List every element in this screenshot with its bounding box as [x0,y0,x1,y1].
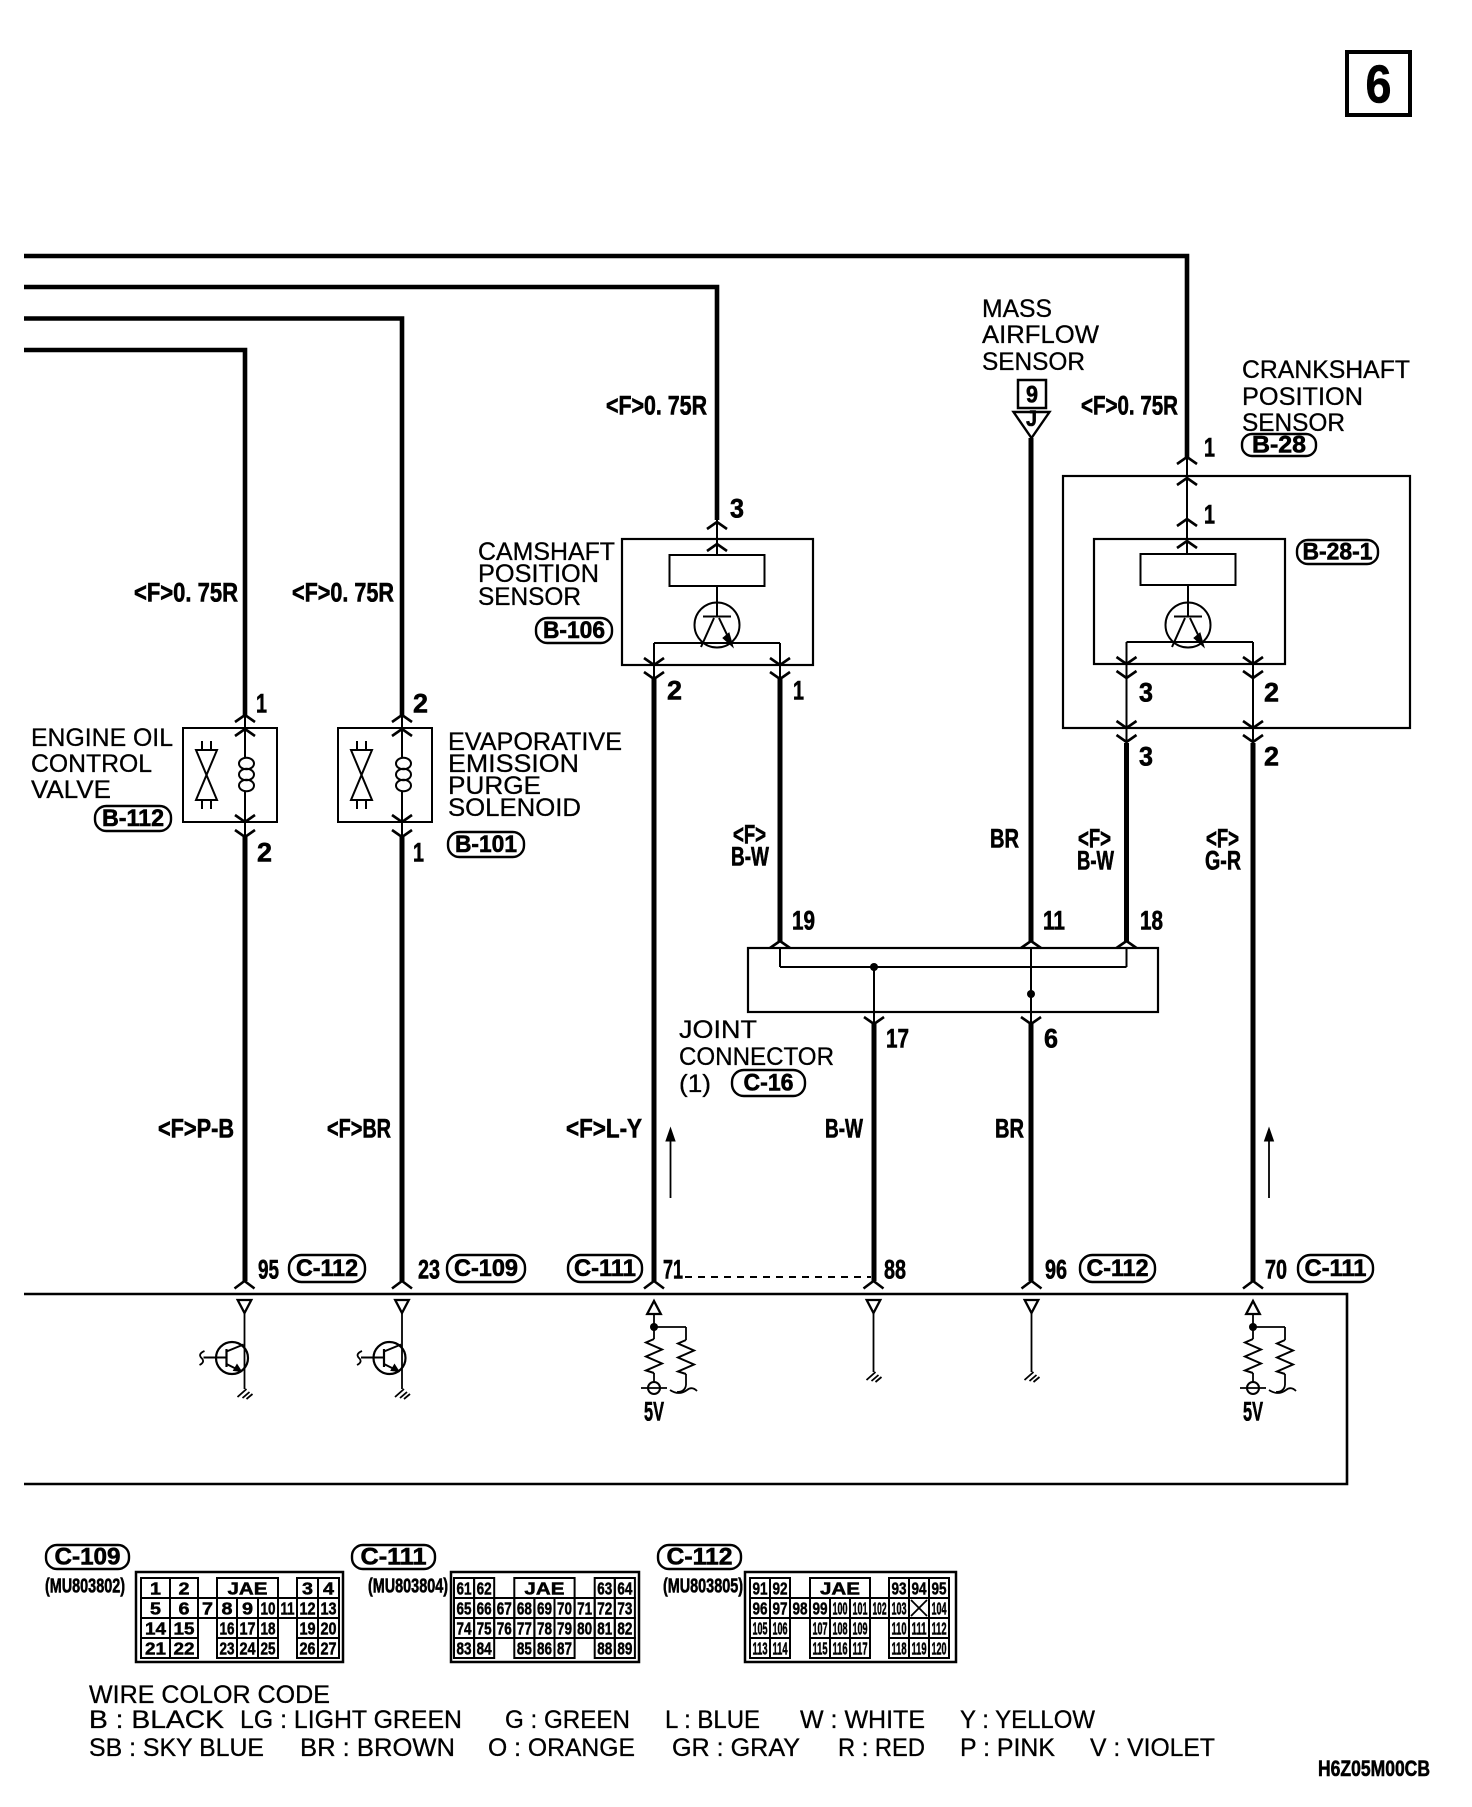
svg-text:77: 77 [517,1618,532,1638]
svg-text:POSITION: POSITION [1242,383,1363,411]
svg-text:9: 9 [242,1598,253,1618]
svg-text:88: 88 [597,1638,612,1658]
svg-text:(MU803804): (MU803804) [368,1576,448,1598]
svg-text:71: 71 [577,1598,592,1618]
svg-text:117: 117 [853,1638,868,1658]
svg-text:B-W: B-W [1077,846,1114,876]
svg-text:22: 22 [174,1638,195,1658]
svg-text:72: 72 [597,1598,612,1618]
svg-text:68: 68 [517,1598,532,1618]
svg-text:3: 3 [1139,742,1153,772]
svg-text:115: 115 [813,1638,828,1658]
svg-text:B-112: B-112 [102,805,164,832]
svg-text:85: 85 [517,1638,532,1658]
svg-text:BR : BROWN: BR : BROWN [300,1734,455,1762]
svg-text:2: 2 [667,676,682,706]
svg-text:B-W: B-W [825,1114,863,1144]
svg-text:1: 1 [413,838,424,868]
svg-text:14: 14 [145,1618,166,1638]
svg-text:120: 120 [932,1638,947,1658]
svg-text:2: 2 [1264,742,1279,772]
svg-text:102: 102 [873,1598,887,1618]
svg-text:114: 114 [773,1638,788,1658]
svg-text:B-106: B-106 [543,617,605,644]
svg-text:O : ORANGE: O : ORANGE [488,1734,635,1762]
svg-text:100: 100 [833,1598,848,1618]
svg-text:1: 1 [256,689,267,719]
svg-text:17: 17 [240,1618,256,1638]
svg-text:98: 98 [793,1598,808,1618]
svg-text:(MU803805): (MU803805) [663,1576,743,1598]
svg-text:87: 87 [557,1638,572,1658]
svg-text:1: 1 [793,676,804,706]
svg-text:1: 1 [150,1578,161,1598]
svg-text:JAE: JAE [524,1578,564,1598]
svg-text:106: 106 [773,1618,788,1638]
svg-text:C-112: C-112 [667,1544,733,1571]
svg-text:C-109: C-109 [454,1255,518,1282]
svg-text:C-109: C-109 [55,1544,121,1571]
svg-text:96: 96 [753,1598,768,1618]
svg-text:97: 97 [773,1598,788,1618]
svg-text:B-28: B-28 [1252,432,1306,459]
svg-text:(1): (1) [679,1070,711,1098]
svg-text:19: 19 [792,906,815,936]
svg-text:24: 24 [240,1638,256,1658]
svg-text:25: 25 [261,1638,276,1658]
svg-text:C-112: C-112 [1087,1255,1149,1282]
svg-text:21: 21 [145,1638,166,1658]
svg-text:93: 93 [892,1578,907,1598]
svg-text:<F>P-B: <F>P-B [158,1114,234,1144]
svg-text:SOLENOID: SOLENOID [448,794,581,822]
svg-text:74: 74 [457,1618,472,1638]
svg-text:9: 9 [1026,382,1038,409]
svg-text:17: 17 [886,1024,909,1054]
svg-text:<F>BR: <F>BR [327,1114,391,1144]
svg-text:95: 95 [258,1255,279,1285]
svg-text:62: 62 [477,1578,492,1598]
svg-text:<F>L-Y: <F>L-Y [566,1114,642,1144]
svg-text:R : RED: R : RED [838,1734,925,1762]
svg-text:SB : SKY BLUE: SB : SKY BLUE [89,1734,264,1762]
svg-text:69: 69 [537,1598,552,1618]
svg-text:107: 107 [813,1618,828,1638]
svg-text:2: 2 [179,1578,190,1598]
svg-text:5V: 5V [644,1397,664,1427]
svg-text:C-16: C-16 [744,1070,794,1097]
svg-text:116: 116 [833,1638,848,1658]
svg-text:66: 66 [477,1598,492,1618]
svg-text:SENSOR: SENSOR [982,348,1085,376]
svg-text:B-W: B-W [731,842,769,872]
svg-text:C-111: C-111 [361,1544,427,1571]
svg-text:86: 86 [537,1638,552,1658]
svg-text:C-111: C-111 [574,1255,636,1282]
svg-text:70: 70 [1265,1255,1287,1285]
svg-text:3: 3 [302,1578,313,1598]
svg-text:2: 2 [257,838,272,868]
svg-text:AIRFLOW: AIRFLOW [982,321,1099,349]
svg-text:6: 6 [1044,1024,1058,1054]
svg-text:H6Z05M00CB: H6Z05M00CB [1318,1756,1430,1781]
svg-text:J: J [1026,406,1037,431]
svg-text:(MU803802): (MU803802) [45,1576,125,1598]
svg-text:BR: BR [990,824,1019,854]
svg-text:JAE: JAE [820,1578,860,1598]
svg-text:G : GREEN: G : GREEN [505,1706,630,1734]
svg-text:B-28-1: B-28-1 [1303,539,1373,566]
svg-text:118: 118 [892,1638,907,1658]
svg-text:1: 1 [1204,433,1215,463]
svg-text:91: 91 [753,1578,768,1598]
svg-text:LG : LIGHT GREEN: LG : LIGHT GREEN [240,1706,462,1734]
svg-text:101: 101 [853,1598,868,1618]
svg-text:BR: BR [995,1114,1024,1144]
svg-text:18: 18 [261,1618,276,1638]
svg-text:95: 95 [932,1578,947,1598]
svg-text:82: 82 [617,1618,632,1638]
svg-text:WIRE COLOR CODE: WIRE COLOR CODE [89,1681,330,1709]
svg-text:27: 27 [321,1638,337,1658]
svg-text:23: 23 [220,1638,235,1658]
svg-text:CRANKSHAFT: CRANKSHAFT [1242,356,1410,384]
svg-text:16: 16 [220,1618,235,1638]
svg-text:12: 12 [300,1598,316,1618]
svg-text:<F>0. 75R: <F>0. 75R [606,391,707,421]
svg-text:83: 83 [457,1638,472,1658]
svg-text:GR : GRAY: GR : GRAY [672,1734,800,1762]
svg-text:C-111: C-111 [1305,1255,1367,1282]
svg-text:4: 4 [323,1578,334,1598]
svg-text:111: 111 [912,1618,927,1638]
svg-text:19: 19 [300,1618,316,1638]
svg-text:Y : YELLOW: Y : YELLOW [960,1706,1095,1734]
svg-text:2: 2 [1264,678,1279,708]
svg-text:92: 92 [773,1578,788,1598]
svg-text:96: 96 [1045,1255,1067,1285]
svg-text:113: 113 [753,1638,768,1658]
svg-text:8: 8 [222,1598,233,1618]
svg-text:6: 6 [1366,54,1392,114]
svg-text:6: 6 [179,1598,190,1618]
svg-text:70: 70 [557,1598,572,1618]
svg-text:26: 26 [300,1638,316,1658]
svg-text:CONNECTOR: CONNECTOR [679,1043,834,1071]
svg-text:1: 1 [1204,500,1215,530]
svg-text:119: 119 [912,1638,927,1658]
svg-text:63: 63 [597,1578,612,1598]
svg-text:110: 110 [892,1618,907,1638]
svg-text:104: 104 [932,1598,947,1618]
svg-text:B-101: B-101 [455,831,517,858]
svg-text:80: 80 [577,1618,592,1638]
svg-text:103: 103 [892,1598,907,1618]
svg-text:CONTROL: CONTROL [31,750,152,778]
svg-text:<F>0. 75R: <F>0. 75R [292,578,394,608]
svg-text:ENGINE OIL: ENGINE OIL [31,724,173,752]
svg-text:<F>0. 75R: <F>0. 75R [134,578,238,608]
svg-text:61: 61 [457,1578,472,1598]
svg-text:15: 15 [174,1618,195,1638]
svg-text:P : PINK: P : PINK [960,1734,1055,1762]
svg-text:64: 64 [617,1578,632,1598]
svg-text:78: 78 [537,1618,552,1638]
svg-text:65: 65 [457,1598,472,1618]
svg-text:18: 18 [1140,906,1163,936]
svg-text:10: 10 [261,1598,276,1618]
svg-text:11: 11 [1043,906,1065,936]
svg-text:71: 71 [663,1255,683,1285]
svg-text:JOINT: JOINT [679,1016,757,1044]
svg-text:5V: 5V [1243,1397,1263,1427]
svg-text:W : WHITE: W : WHITE [800,1706,925,1734]
svg-text:67: 67 [497,1598,512,1618]
svg-text:109: 109 [853,1618,868,1638]
svg-text:20: 20 [321,1618,337,1638]
svg-text:L : BLUE: L : BLUE [665,1706,760,1734]
svg-text:7: 7 [202,1598,213,1618]
svg-text:94: 94 [912,1578,927,1598]
svg-text:23: 23 [418,1255,440,1285]
svg-text:G-R: G-R [1205,846,1241,876]
svg-text:3: 3 [1139,678,1153,708]
svg-text:84: 84 [477,1638,492,1658]
svg-text:112: 112 [932,1618,947,1638]
svg-text:JAE: JAE [228,1578,268,1598]
svg-text:75: 75 [477,1618,492,1638]
svg-text:SENSOR: SENSOR [478,583,581,611]
svg-text:MASS: MASS [982,295,1052,323]
svg-text:B : BLACK: B : BLACK [89,1706,224,1734]
svg-text:89: 89 [617,1638,632,1658]
svg-text:88: 88 [884,1255,906,1285]
svg-text:11: 11 [281,1598,295,1618]
svg-text:13: 13 [321,1598,337,1618]
svg-text:VALVE: VALVE [31,776,111,804]
svg-text:V : VIOLET: V : VIOLET [1090,1734,1215,1762]
svg-text:5: 5 [150,1598,161,1618]
svg-text:81: 81 [597,1618,612,1638]
svg-text:76: 76 [497,1618,512,1638]
svg-text:108: 108 [833,1618,848,1638]
svg-text:105: 105 [753,1618,768,1638]
svg-text:99: 99 [813,1598,828,1618]
svg-text:79: 79 [557,1618,572,1638]
svg-text:2: 2 [413,689,428,719]
svg-text:73: 73 [617,1598,632,1618]
svg-text:3: 3 [730,494,744,524]
svg-text:C-112: C-112 [296,1255,358,1282]
svg-text:<F>0. 75R: <F>0. 75R [1081,391,1178,421]
